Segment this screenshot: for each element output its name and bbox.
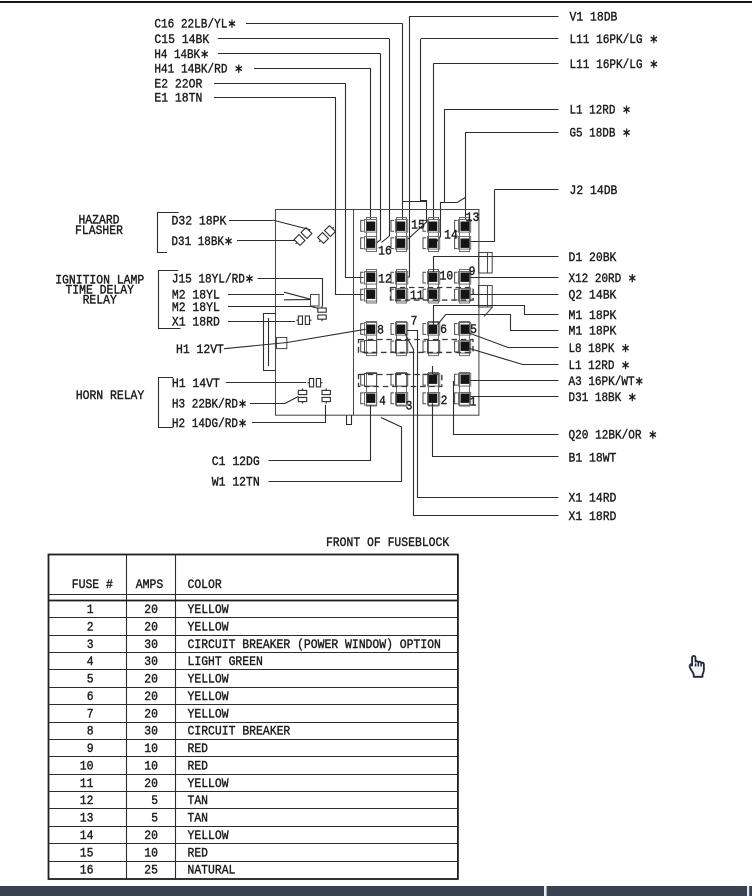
svg-text:C16 22LB/YL∗: C16 22LB/YL∗ bbox=[154, 18, 236, 32]
svg-text:AMPS: AMPS bbox=[136, 578, 163, 592]
svg-text:8: 8 bbox=[377, 323, 384, 337]
svg-text:15: 15 bbox=[411, 218, 425, 232]
svg-text:10: 10 bbox=[440, 270, 454, 284]
svg-text:11: 11 bbox=[80, 777, 94, 791]
svg-text:10: 10 bbox=[144, 742, 158, 756]
svg-text:H41 14BK/RD ∗: H41 14BK/RD ∗ bbox=[154, 63, 243, 77]
svg-text:V1 18DB: V1 18DB bbox=[570, 10, 618, 24]
svg-text:13: 13 bbox=[80, 812, 94, 826]
svg-text:M2 18YL: M2 18YL bbox=[172, 301, 220, 315]
svg-text:16: 16 bbox=[378, 244, 392, 258]
svg-text:YELLOW: YELLOW bbox=[188, 620, 229, 634]
svg-text:13: 13 bbox=[466, 211, 480, 225]
svg-text:14: 14 bbox=[444, 228, 458, 242]
svg-text:E2 22OR: E2 22OR bbox=[154, 78, 202, 92]
svg-text:9: 9 bbox=[87, 742, 94, 756]
svg-text:L11 16PK/LG ∗: L11 16PK/LG ∗ bbox=[570, 33, 659, 47]
svg-text:YELLOW: YELLOW bbox=[188, 690, 229, 704]
svg-text:X1 18RD: X1 18RD bbox=[569, 510, 617, 524]
svg-text:1: 1 bbox=[87, 603, 94, 617]
svg-text:COLOR: COLOR bbox=[188, 578, 223, 592]
svg-text:TAN: TAN bbox=[188, 812, 209, 826]
svg-text:20: 20 bbox=[144, 673, 158, 687]
svg-text:5: 5 bbox=[151, 794, 158, 808]
svg-text:6: 6 bbox=[440, 323, 447, 337]
svg-text:5: 5 bbox=[151, 812, 158, 826]
svg-text:M1 18PK: M1 18PK bbox=[569, 309, 617, 323]
svg-text:RED: RED bbox=[188, 742, 209, 756]
svg-text:11: 11 bbox=[410, 289, 424, 303]
svg-text:30: 30 bbox=[144, 638, 158, 652]
svg-text:H1 14VT: H1 14VT bbox=[172, 377, 220, 391]
svg-text:1: 1 bbox=[470, 395, 477, 409]
svg-text:YELLOW: YELLOW bbox=[188, 707, 229, 721]
svg-text:X12 20RD ∗: X12 20RD ∗ bbox=[569, 272, 638, 286]
svg-text:D1 20BK: D1 20BK bbox=[569, 251, 617, 265]
svg-text:9: 9 bbox=[469, 265, 476, 279]
svg-text:J15 18YL/RD∗: J15 18YL/RD∗ bbox=[172, 272, 254, 286]
svg-text:H3 22BK/RD∗: H3 22BK/RD∗ bbox=[172, 397, 247, 411]
svg-text:CIRCUIT BREAKER (POWER WINDOW): CIRCUIT BREAKER (POWER WINDOW) OPTION bbox=[188, 638, 441, 652]
svg-text:L11 16PK/LG ∗: L11 16PK/LG ∗ bbox=[570, 58, 659, 72]
svg-text:A3 16PK/WT∗: A3 16PK/WT∗ bbox=[569, 375, 644, 389]
svg-text:8: 8 bbox=[87, 725, 94, 739]
svg-text:YELLOW: YELLOW bbox=[188, 673, 229, 687]
svg-text:FLASHER: FLASHER bbox=[75, 224, 123, 238]
svg-text:X1 18RD: X1 18RD bbox=[172, 315, 220, 329]
svg-text:10: 10 bbox=[80, 759, 94, 773]
svg-text:C15 14BK: C15 14BK bbox=[154, 33, 209, 47]
svg-text:20: 20 bbox=[144, 707, 158, 721]
svg-text:20: 20 bbox=[144, 690, 158, 704]
svg-text:4: 4 bbox=[379, 394, 386, 408]
svg-text:RED: RED bbox=[188, 846, 209, 860]
svg-text:NATURAL: NATURAL bbox=[188, 864, 236, 878]
svg-text:20: 20 bbox=[144, 620, 158, 634]
svg-text:2: 2 bbox=[87, 620, 94, 634]
svg-text:Q20 12BK/OR ∗: Q20 12BK/OR ∗ bbox=[569, 429, 658, 443]
svg-text:2: 2 bbox=[441, 394, 448, 408]
svg-text:L1 12RD ∗: L1 12RD ∗ bbox=[569, 359, 631, 373]
svg-text:RED: RED bbox=[188, 759, 209, 773]
svg-text:FUSE #: FUSE # bbox=[72, 578, 113, 592]
svg-text:J2 14DB: J2 14DB bbox=[570, 184, 618, 198]
svg-text:3: 3 bbox=[406, 400, 413, 414]
svg-text:TAN: TAN bbox=[188, 794, 209, 808]
svg-text:15: 15 bbox=[80, 846, 94, 860]
svg-text:6: 6 bbox=[87, 690, 94, 704]
svg-text:3: 3 bbox=[87, 638, 94, 652]
svg-text:30: 30 bbox=[144, 655, 158, 669]
svg-text:10: 10 bbox=[144, 846, 158, 860]
svg-text:E1 18TN: E1 18TN bbox=[154, 92, 202, 106]
svg-text:X1 14RD: X1 14RD bbox=[569, 491, 617, 505]
svg-text:YELLOW: YELLOW bbox=[188, 777, 229, 791]
svg-text:FRONT OF FUSEBLOCK: FRONT OF FUSEBLOCK bbox=[326, 536, 450, 550]
svg-text:YELLOW: YELLOW bbox=[188, 603, 229, 617]
svg-text:D31 18BK∗: D31 18BK∗ bbox=[172, 235, 234, 249]
svg-text:YELLOW: YELLOW bbox=[188, 829, 229, 843]
svg-text:20: 20 bbox=[144, 829, 158, 843]
svg-text:G5 18DB ∗: G5 18DB ∗ bbox=[570, 127, 632, 141]
svg-text:Q2 14BK: Q2 14BK bbox=[569, 289, 617, 303]
svg-text:20: 20 bbox=[144, 777, 158, 791]
svg-text:H1 12VT: H1 12VT bbox=[176, 343, 224, 357]
svg-text:RELAY: RELAY bbox=[83, 293, 118, 307]
svg-text:10: 10 bbox=[144, 759, 158, 773]
svg-text:25: 25 bbox=[144, 864, 158, 878]
svg-text:CIRCUIT BREAKER: CIRCUIT BREAKER bbox=[188, 725, 291, 739]
svg-text:16: 16 bbox=[80, 864, 94, 878]
svg-text:14: 14 bbox=[80, 829, 94, 843]
svg-text:7: 7 bbox=[411, 314, 418, 328]
svg-text:4: 4 bbox=[87, 655, 94, 669]
svg-text:30: 30 bbox=[144, 725, 158, 739]
svg-text:B1 18WT: B1 18WT bbox=[569, 451, 617, 465]
svg-text:12: 12 bbox=[378, 272, 392, 286]
svg-text:5: 5 bbox=[87, 673, 94, 687]
svg-text:D31 18BK ∗: D31 18BK ∗ bbox=[569, 391, 638, 405]
svg-text:L1 12RD ∗: L1 12RD ∗ bbox=[570, 104, 632, 118]
svg-text:20: 20 bbox=[144, 603, 158, 617]
svg-text:L8 18PK ∗: L8 18PK ∗ bbox=[569, 342, 631, 356]
svg-text:7: 7 bbox=[87, 707, 94, 721]
svg-text:LIGHT GREEN: LIGHT GREEN bbox=[188, 655, 263, 669]
svg-text:HORN RELAY: HORN RELAY bbox=[76, 389, 145, 403]
svg-text:D32 18PK: D32 18PK bbox=[172, 214, 227, 228]
svg-text:M1 18PK: M1 18PK bbox=[569, 325, 617, 339]
svg-text:H2 14DG/RD∗: H2 14DG/RD∗ bbox=[172, 417, 247, 431]
svg-text:W1 12TN: W1 12TN bbox=[212, 476, 260, 490]
svg-text:12: 12 bbox=[80, 794, 94, 808]
svg-text:H4 14BK∗: H4 14BK∗ bbox=[154, 48, 209, 62]
svg-text:C1 12DG: C1 12DG bbox=[212, 455, 260, 469]
